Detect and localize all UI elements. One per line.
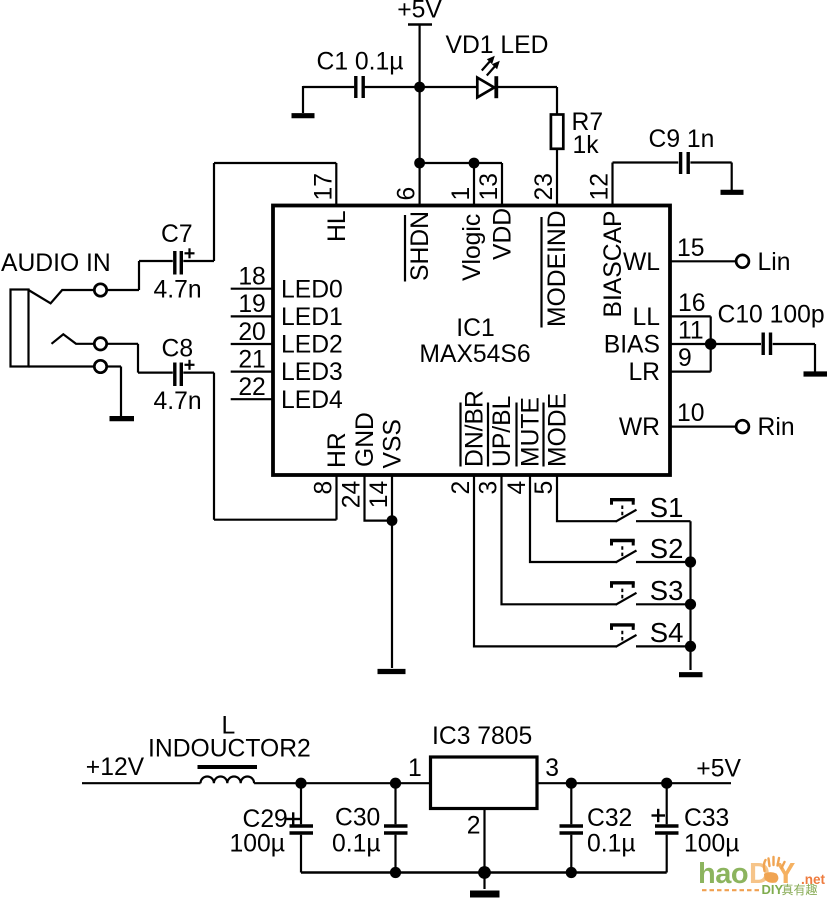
- svg-text:HL: HL: [324, 210, 351, 242]
- capacitor C9: [679, 152, 682, 174]
- junction dot S3 bus: [685, 599, 696, 610]
- svg-text:0.1µ: 0.1µ: [332, 830, 381, 857]
- pin name MUTE (pin 4): [518, 397, 545, 467]
- pin 20 wire: [231, 343, 272, 345]
- wire ring to C8: [107, 343, 138, 345]
- wire bottom rail: [301, 871, 667, 873]
- svg-text:INDOUCTOR2: INDOUCTOR2: [148, 736, 311, 763]
- wire pin 1: [473, 163, 475, 204]
- svg-text:HR: HR: [324, 432, 351, 468]
- pin name LED2: [281, 332, 343, 359]
- inductor L label: [222, 713, 236, 740]
- svg-text:UP/BL: UP/BL: [489, 396, 516, 467]
- inductor L core bar: [198, 765, 258, 769]
- svg-text:22: 22: [238, 374, 265, 401]
- svg-text:WL: WL: [623, 249, 660, 276]
- capacitor C32 labels: [587, 805, 636, 857]
- pin number 15: [677, 235, 704, 262]
- svg-text:4.7n: 4.7n: [154, 388, 202, 415]
- pin number 22: [238, 374, 265, 401]
- capacitor C32: [570, 783, 572, 824]
- svg-text:1k: 1k: [573, 132, 600, 159]
- pin name LED0: [281, 276, 343, 303]
- svg-text:100µ: 100µ: [230, 830, 285, 857]
- wire S4 to bus: [636, 645, 691, 647]
- capacitor C8 labels: [154, 336, 202, 416]
- svg-text:12: 12: [587, 173, 614, 200]
- node +5V output label: [696, 755, 741, 782]
- pin 21 wire: [231, 371, 272, 373]
- terminal Lin: [736, 255, 749, 268]
- svg-text:24: 24: [339, 481, 366, 508]
- junction dot C29 node: [295, 778, 306, 789]
- pin number 2: [448, 481, 475, 495]
- ground (VSS): [378, 669, 406, 674]
- IC U1 body MAX54S6: [273, 206, 670, 476]
- switch S2: [610, 539, 635, 542]
- pin name VDD (pin 13): [490, 208, 517, 260]
- pin name MODEIND (pin 23): [544, 210, 571, 327]
- svg-text:SHDN: SHDN: [407, 211, 434, 281]
- svg-text:S2: S2: [650, 533, 684, 564]
- switch S4: [610, 623, 635, 626]
- regulator IC3 label: [432, 723, 532, 750]
- pin number 19: [238, 291, 265, 318]
- regulator IC3 7805 body: [431, 757, 538, 809]
- svg-text:Vlogic: Vlogic: [459, 214, 486, 281]
- junction dot S2 bus: [685, 556, 696, 567]
- svg-text:C30: C30: [335, 805, 380, 832]
- svg-text:3: 3: [545, 755, 559, 782]
- svg-text:+5V: +5V: [696, 755, 741, 782]
- pin name LED3: [281, 359, 343, 386]
- wire C9 to ground: [690, 161, 731, 163]
- wire pin 13: [501, 163, 503, 204]
- junction dot C33 node: [661, 778, 672, 789]
- pin number 3: [476, 481, 503, 495]
- svg-text:IC3 7805: IC3 7805: [432, 723, 532, 750]
- wire C10 to ground: [773, 343, 815, 345]
- ground (switch bus): [679, 672, 703, 677]
- pin 24 wire: [365, 476, 393, 521]
- wire pin 12 to C9: [611, 163, 613, 205]
- svg-text:S4: S4: [650, 617, 684, 648]
- pin name LR (pin 9): [628, 359, 660, 386]
- overline MODEIND: [540, 217, 542, 328]
- pin name HL (pin 17): [324, 210, 351, 242]
- svg-text:C7: C7: [161, 221, 193, 248]
- pin name BIASCAP (pin 12): [600, 210, 627, 317]
- pin number 24: [339, 481, 366, 508]
- wire inductor to IC3: [254, 782, 430, 784]
- svg-text:C10 100p: C10 100p: [718, 302, 825, 329]
- capacitor C33 labels: [684, 805, 739, 857]
- svg-text:21: 21: [238, 346, 265, 373]
- svg-text:C32: C32: [587, 805, 632, 832]
- ground (power supply): [470, 891, 500, 898]
- svg-text:2: 2: [467, 813, 481, 840]
- wire sleeve to ground: [107, 365, 121, 367]
- switch S3: [610, 581, 635, 584]
- pin 2 wire: [474, 476, 616, 647]
- svg-text:6: 6: [394, 187, 421, 201]
- svg-text:MAX54S6: MAX54S6: [419, 341, 530, 368]
- overline MUTE: [515, 403, 517, 467]
- svg-text:Lin: Lin: [758, 249, 791, 276]
- svg-text:15: 15: [677, 235, 704, 262]
- wire +12V input: [82, 782, 201, 784]
- IC3 pin 2 wire: [483, 809, 485, 890]
- wire S1 to bus: [636, 520, 691, 522]
- svg-text:IC1: IC1: [456, 315, 494, 342]
- terminal Rin: [736, 420, 749, 433]
- pin 14 wire: [391, 476, 393, 521]
- svg-text:C9 1n: C9 1n: [649, 126, 715, 153]
- IC3 pin number 3: [545, 755, 559, 782]
- capacitor C30 labels: [332, 805, 381, 858]
- pin name UP/BL (pin 3): [489, 396, 516, 467]
- pin 16 wire: [670, 315, 711, 317]
- audio jack connector body: [11, 290, 29, 367]
- overline UP/BL: [487, 403, 489, 467]
- capacitor C30: [394, 783, 396, 824]
- capacitor C10: [762, 333, 765, 356]
- capacitor C29: [300, 783, 302, 824]
- junction dot pin1 row: [469, 158, 480, 169]
- wire pin 17 branch: [213, 163, 215, 261]
- IC3 pin number 2: [467, 813, 481, 840]
- pin name GND (pin 24): [352, 412, 379, 467]
- svg-text:+12V: +12V: [86, 754, 145, 781]
- svg-text:3: 3: [476, 481, 503, 495]
- pin number 10: [677, 400, 704, 427]
- pin 10 wire: [670, 426, 736, 428]
- audio jack tip contact: [29, 290, 95, 303]
- svg-text:S3: S3: [650, 575, 684, 606]
- svg-text:+5V: +5V: [397, 0, 442, 24]
- pin number 8: [311, 481, 338, 495]
- svg-text:16: 16: [678, 290, 705, 317]
- svg-text:4: 4: [504, 481, 531, 495]
- svg-text:BIAS: BIAS: [604, 332, 660, 359]
- pin name MODE (pin 5): [545, 393, 572, 467]
- node +5V label: [397, 0, 442, 24]
- pin number 23: [531, 173, 558, 200]
- inductor L windings: [201, 777, 255, 784]
- wire top horizontal rail y=87: [303, 86, 354, 88]
- switch S1: [610, 498, 635, 501]
- audio jack ring contact: [52, 334, 95, 344]
- svg-text:20: 20: [238, 319, 265, 346]
- svg-text:8: 8: [311, 481, 338, 495]
- ground (audio jack): [110, 416, 135, 421]
- watermark dashed line: [702, 889, 760, 891]
- svg-text:18: 18: [238, 264, 265, 291]
- junction dot BIAS node: [705, 338, 717, 350]
- wire C7 to pin 17 line: [183, 260, 214, 262]
- pin name HR (pin 8): [324, 432, 351, 468]
- capacitor C9 label: [649, 126, 715, 153]
- ground (C10): [804, 371, 827, 376]
- pin 3 wire: [502, 476, 617, 605]
- watermark haoDIY logo: [698, 857, 826, 897]
- svg-text:23: 23: [531, 173, 558, 200]
- pin number 11: [678, 318, 704, 345]
- wire bracket pins 16-11-9: [710, 316, 712, 371]
- IC1 reference label: [456, 315, 494, 342]
- capacitor C8 polarity plus: [185, 364, 195, 366]
- junction dot rail C30: [390, 867, 401, 878]
- overline MODE: [542, 403, 544, 467]
- pin number 5: [531, 481, 558, 495]
- pin number 1: [448, 187, 475, 201]
- svg-text:DIY: DIY: [762, 882, 784, 897]
- svg-text:100µ: 100µ: [684, 830, 739, 857]
- junction dot C32 node: [566, 778, 577, 789]
- junction dot +5V/C1/LED: [414, 82, 425, 93]
- svg-text:LED4: LED4: [281, 387, 343, 414]
- wire S2 to bus: [636, 561, 691, 563]
- pin name VSS (pin 14): [379, 419, 406, 468]
- LED VD1: [477, 78, 494, 98]
- junction dot S4 bus: [685, 641, 696, 652]
- wire VSS to ground: [391, 521, 393, 668]
- pin number 12: [587, 173, 614, 200]
- svg-text:VDD: VDD: [490, 208, 517, 260]
- svg-text:MUTE: MUTE: [518, 397, 545, 467]
- svg-text:MODEIND: MODEIND: [544, 210, 571, 327]
- pin number 13: [476, 173, 503, 200]
- capacitor C29 labels: [230, 806, 288, 857]
- capacitor C1: [354, 76, 357, 98]
- svg-text:C29: C29: [243, 806, 288, 833]
- junction dot pin6 row: [414, 158, 425, 169]
- pin number 17: [310, 173, 337, 200]
- capacitor C7 labels: [154, 221, 202, 304]
- pin name SHDN (pin 6): [407, 211, 434, 281]
- pin 15 wire: [670, 260, 736, 262]
- node +12V label: [86, 754, 145, 781]
- wire BIAS to C10: [711, 343, 761, 345]
- svg-text:14: 14: [366, 481, 393, 508]
- capacitor C33 polarity plus: [652, 814, 666, 816]
- pin number 6: [394, 187, 421, 201]
- pin number 20: [238, 319, 265, 346]
- junction dot C30 node: [390, 778, 401, 789]
- capacitor C7 polarity plus: [185, 252, 195, 254]
- svg-text:4.7n: 4.7n: [154, 277, 202, 304]
- junction dot rail C32: [566, 867, 577, 878]
- svg-text:hao: hao: [698, 858, 748, 890]
- svg-text:真有趣: 真有趣: [782, 882, 818, 897]
- pin name DN/BR (pin 2): [462, 390, 489, 467]
- svg-text:C33: C33: [684, 805, 729, 832]
- wire IC3 output +5V: [537, 782, 731, 784]
- svg-text:LED0: LED0: [281, 276, 343, 303]
- svg-text:MODE: MODE: [545, 393, 572, 467]
- pin name Vlogic (pin 1): [459, 214, 486, 281]
- pin 5 wire: [557, 476, 616, 522]
- wire C1 to ground: [302, 86, 304, 113]
- LED VD1 label: [446, 32, 549, 59]
- svg-text:C1 0.1µ: C1 0.1µ: [317, 49, 404, 76]
- pin 8 wire: [335, 476, 337, 520]
- svg-text:AUDIO IN: AUDIO IN: [1, 250, 111, 277]
- wire +5V vertical to pin 6: [419, 25, 421, 204]
- svg-text:S1: S1: [650, 492, 684, 523]
- inductor L name label: [148, 736, 311, 763]
- LED VD1 arrows: [482, 60, 492, 71]
- junction dot IC3 pin2 rail: [478, 866, 491, 879]
- capacitor C8: [173, 363, 176, 387]
- pin 9 wire: [670, 371, 711, 373]
- svg-text:19: 19: [238, 291, 265, 318]
- watermark hand icon: [764, 857, 785, 883]
- capacitor C7: [173, 251, 176, 275]
- overline SHDN: [404, 215, 406, 282]
- pin number 9: [678, 345, 692, 372]
- capacitor C29 polarity plus: [287, 818, 301, 820]
- svg-text:LED2: LED2: [281, 332, 343, 359]
- wire C8 to pin 8 branch: [183, 372, 214, 374]
- pin name LED1: [281, 304, 343, 331]
- svg-text:13: 13: [476, 173, 503, 200]
- node +5V bar: [408, 23, 432, 26]
- ground (C1): [292, 113, 315, 118]
- wire LED cathode to R7: [498, 86, 557, 88]
- overline DN/BR: [459, 403, 461, 467]
- pin 19 wire: [231, 315, 272, 317]
- svg-text:VD1 LED: VD1 LED: [446, 32, 549, 59]
- svg-text:VSS: VSS: [379, 419, 406, 468]
- capacitor C10 label: [718, 302, 825, 329]
- label AUDIO IN: [1, 250, 111, 277]
- junction dot VSS/GND node: [387, 515, 398, 526]
- pin 4 wire: [530, 476, 616, 563]
- resistor R7 labels: [572, 109, 604, 159]
- audio jack sleeve: [29, 365, 95, 367]
- svg-text:LED3: LED3: [281, 359, 343, 386]
- wire logic supply row y=163: [420, 162, 502, 164]
- svg-text:DN/BR: DN/BR: [462, 390, 489, 467]
- pin name WR (pin 10): [619, 414, 660, 441]
- svg-text:9: 9: [678, 345, 692, 372]
- svg-text:1: 1: [448, 187, 475, 201]
- pin name BIAS (pin 11): [604, 332, 660, 359]
- resistor R7: [551, 115, 563, 149]
- svg-text:2: 2: [448, 481, 475, 495]
- wire switch bus: [689, 521, 691, 670]
- wire R7 to pin 23: [556, 149, 558, 204]
- svg-text:LL: LL: [633, 304, 660, 331]
- svg-text:10: 10: [677, 400, 704, 427]
- pin name LED4: [281, 387, 343, 414]
- svg-text:17: 17: [310, 173, 337, 200]
- svg-text:0.1µ: 0.1µ: [587, 830, 636, 857]
- pin name LL (pin 16): [633, 304, 660, 331]
- ground (C9): [721, 190, 744, 195]
- svg-text:LR: LR: [628, 359, 660, 386]
- svg-text:LED1: LED1: [281, 304, 343, 331]
- IC3 pin number 1: [408, 755, 422, 782]
- pin 11 wire: [670, 343, 711, 345]
- svg-text:Rin: Rin: [758, 414, 795, 441]
- capacitor C1 value label: [317, 49, 404, 76]
- pin 22 wire: [231, 398, 272, 400]
- capacitor C33: [666, 783, 668, 824]
- pin number 18: [238, 264, 265, 291]
- svg-text:1: 1: [408, 755, 422, 782]
- svg-text:5: 5: [531, 481, 558, 495]
- pin number 16: [678, 290, 705, 317]
- pin name WL (pin 15): [623, 249, 660, 276]
- svg-text:11: 11: [678, 318, 704, 345]
- svg-text:WR: WR: [619, 414, 660, 441]
- svg-text:C8: C8: [162, 336, 194, 363]
- pin number 21: [238, 346, 265, 373]
- svg-text:GND: GND: [352, 412, 379, 467]
- pin number 4: [504, 481, 531, 495]
- wire S3 to bus: [636, 603, 691, 605]
- pin number 14: [366, 481, 393, 508]
- pin 18 wire: [231, 288, 272, 290]
- wire tip to C7: [107, 289, 139, 291]
- IC1 part number label: [419, 341, 530, 368]
